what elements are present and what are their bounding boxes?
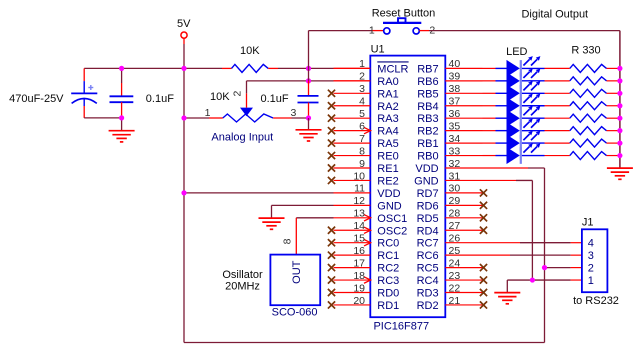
pin 11 VDD (left stub): [334, 192, 371, 194]
svg-text:U1: U1: [371, 44, 385, 56]
label pin number 2: [359, 71, 365, 83]
svg-text:470uF-25V: 470uF-25V: [9, 93, 64, 105]
svg-text:5V: 5V: [177, 18, 191, 30]
wire resistor R8 to bus: [607, 155, 620, 157]
label pin number 24: [449, 257, 461, 269]
label pin number 19: [353, 282, 365, 294]
wire J1 pin1 to ground: [507, 280, 582, 293]
svg-text:13: 13: [353, 208, 365, 220]
svg-text:OSC2: OSC2: [377, 225, 407, 237]
label pin number 4: [359, 96, 365, 108]
pin 6 RA4 (left stub): [328, 127, 371, 134]
svg-text:40: 40: [449, 58, 461, 70]
pin 1 MCLR (left stub): [334, 67, 371, 69]
label pin number 30: [449, 183, 461, 195]
svg-text:RC0: RC0: [377, 238, 399, 250]
pin 34 RB1 (right stub): [445, 142, 482, 144]
label R 330: [571, 45, 600, 57]
svg-text:25: 25: [449, 245, 461, 257]
label pin name RC2: [377, 263, 399, 275]
label pin name RE0: [377, 151, 398, 163]
svg-text:18: 18: [353, 270, 365, 282]
label pin number 29: [449, 195, 461, 207]
label pin number 37: [449, 96, 461, 108]
label pin name RC5: [417, 263, 439, 275]
wire resistor R5 to bus: [607, 117, 620, 119]
svg-text:RC1: RC1: [377, 250, 399, 262]
label pin number 28: [449, 208, 461, 220]
label pin name OSC1: [377, 213, 407, 225]
pin 2 RA0 (left stub): [334, 80, 371, 82]
wire resistor R1 to bus: [607, 67, 620, 69]
label C2 value: [146, 93, 174, 105]
junction pot pin3/C3/ground: [306, 115, 311, 120]
svg-text:OSC1: OSC1: [377, 213, 407, 225]
label pin number 18: [353, 270, 365, 282]
label J1 pin 3: [588, 250, 594, 262]
svg-text:RB1: RB1: [417, 138, 438, 150]
pin 10 RE2 (left stub): [328, 177, 370, 184]
svg-text:Reset Button: Reset Button: [372, 8, 436, 20]
svg-text:RD6: RD6: [417, 200, 439, 212]
label pin name RB0: [417, 151, 438, 163]
label pin name RD6: [417, 200, 439, 212]
label pin name RD3: [417, 288, 439, 300]
label pin number 39: [449, 71, 461, 83]
svg-text:5: 5: [359, 108, 365, 120]
label pin name RA4: [377, 126, 398, 138]
svg-text:RB6: RB6: [417, 76, 438, 88]
capacitor C3 0.1uF: [298, 81, 319, 118]
pin 18 RC3 (left stub): [328, 276, 371, 283]
svg-text:RB7: RB7: [417, 63, 438, 75]
svg-text:RA5: RA5: [377, 138, 398, 150]
svg-text:RE0: RE0: [377, 151, 398, 163]
pin 38 RB5 (right stub): [445, 92, 482, 94]
svg-text:RC5: RC5: [417, 263, 439, 275]
label pin name RA3: [377, 113, 398, 125]
ground (LED bus): [607, 168, 633, 179]
svg-text:RC3: RC3: [377, 275, 399, 287]
wire LED D6 to resistor: [545, 130, 570, 132]
oscillator X1 SCO-060 body: [270, 255, 320, 306]
junction bus row 7: [617, 141, 622, 146]
svg-text:10K: 10K: [240, 45, 260, 57]
pin 9 RE1 (left stub): [328, 164, 370, 171]
pin 28 RD5 (right stub): [445, 214, 487, 221]
pushbutton SW1 Reset Button: [383, 18, 421, 34]
label button pin 1: [369, 24, 375, 36]
label U1 refdes: [371, 44, 385, 56]
label pin name RA0: [377, 76, 398, 88]
pin 36 RB3 (right stub): [445, 117, 482, 119]
label C3 value: [261, 93, 289, 105]
wire GND pin12: [272, 205, 334, 218]
junction pot pin1/5V rail: [181, 115, 186, 120]
svg-text:26: 26: [449, 233, 461, 245]
svg-text:34: 34: [449, 133, 461, 145]
wire LED D7 to resistor: [545, 142, 570, 144]
resistor R7 330: [570, 139, 607, 147]
label to RS232: [573, 295, 619, 307]
label pin number 23: [449, 270, 461, 282]
wire LED D5 to resistor: [545, 117, 570, 119]
svg-text:1: 1: [369, 24, 375, 36]
label pin name RA1: [377, 88, 398, 100]
label OUT (rotated): [291, 260, 303, 284]
label LED: [506, 46, 527, 58]
junction 5V rail/top rail: [181, 66, 186, 71]
svg-text:RD2: RD2: [417, 300, 439, 312]
wire RB0 to LED D8: [483, 155, 496, 157]
svg-text:Digital Output: Digital Output: [521, 9, 588, 21]
svg-text:10: 10: [353, 170, 365, 182]
svg-text:SCO-060: SCO-060: [272, 307, 318, 319]
label pin number 20: [353, 295, 365, 307]
label pin name OSC2: [377, 225, 407, 237]
label pin number 33: [449, 145, 461, 157]
svg-text:21: 21: [449, 295, 461, 307]
label pin number 40: [449, 58, 461, 70]
wire 5V vertical rail: [183, 44, 185, 343]
svg-text:8: 8: [281, 238, 293, 244]
wire LED D2 to resistor: [545, 80, 570, 82]
svg-text:RB5: RB5: [417, 88, 438, 100]
ground (J1/RS232): [494, 293, 520, 304]
svg-text:30: 30: [449, 183, 461, 195]
label pin name RA5: [377, 138, 398, 150]
svg-text:10K: 10K: [210, 91, 230, 103]
label pin name RB7: [417, 63, 438, 75]
label button pin 2: [429, 24, 435, 36]
svg-text:33: 33: [449, 145, 461, 157]
label pin number 1: [359, 58, 365, 70]
label pin name MCLR: [377, 62, 408, 76]
label pin name RC1: [377, 250, 399, 262]
pin 13 OSC1 (left stub): [334, 215, 371, 221]
LED D6: [496, 118, 545, 139]
LED D1: [496, 56, 545, 77]
LED D5: [496, 106, 545, 127]
label Analog Input: [211, 132, 273, 144]
label pin name RB1: [417, 138, 438, 150]
svg-text:24: 24: [449, 257, 461, 269]
LED D4: [496, 93, 545, 114]
svg-text:to RS232: to RS232: [573, 295, 619, 307]
pin 35 RB2 (right stub): [445, 130, 482, 132]
label pin number 22: [449, 282, 461, 294]
svg-text:RA0: RA0: [377, 76, 398, 88]
junction J1 pin1/GND wire: [530, 277, 535, 282]
wire LED D8 to resistor: [545, 155, 570, 157]
pin 33 RB0 (right stub): [445, 155, 482, 157]
ground (filter caps): [109, 118, 135, 142]
svg-text:GND: GND: [414, 175, 439, 187]
label U1 part PIC16F877: [373, 321, 429, 333]
wire VDD pin32 down to bottom rail: [483, 168, 545, 343]
label pin number 3: [359, 83, 365, 95]
svg-text:RB0: RB0: [417, 151, 438, 163]
svg-text:RB2: RB2: [417, 126, 438, 138]
label pin name RB2: [417, 126, 438, 138]
resistor R1 330: [570, 64, 607, 72]
pin 25 RC6 (right stub): [445, 254, 482, 256]
junction bus row 2: [617, 78, 622, 83]
svg-text:RA2: RA2: [377, 101, 398, 113]
label pin number 13: [353, 208, 365, 220]
svg-text:RC6: RC6: [417, 250, 439, 262]
svg-text:RC4: RC4: [417, 275, 439, 287]
wire LED ground bus: [619, 31, 621, 169]
svg-text:2: 2: [588, 263, 594, 275]
pin 3 RA1 (left stub): [328, 90, 370, 97]
LED D8: [496, 143, 545, 164]
svg-text:4: 4: [359, 96, 365, 108]
wire reset button right leg to ground bus: [419, 30, 620, 32]
svg-text:RE2: RE2: [377, 175, 398, 187]
wire top-left 5V branch: [84, 67, 222, 69]
pin 26 RC7 (right stub): [445, 242, 482, 244]
label pin number 10: [353, 170, 365, 182]
ground (MCU): [259, 218, 285, 229]
label SCO-060: [272, 307, 318, 319]
label pin name GND: [414, 175, 439, 187]
MCU U1 PIC16F877 body: [370, 56, 445, 318]
svg-text:2: 2: [359, 71, 365, 83]
label pin name RD2: [417, 300, 439, 312]
label pin number 36: [449, 108, 461, 120]
svg-text:31: 31: [449, 170, 461, 182]
label pin number 14: [353, 220, 365, 232]
pin 7 RA5 (left stub): [328, 140, 370, 147]
svg-text:Analog Input: Analog Input: [211, 132, 273, 144]
svg-text:RB3: RB3: [417, 113, 438, 125]
svg-text:RD1: RD1: [377, 300, 399, 312]
wire RB1 to LED D7: [483, 142, 496, 144]
svg-text:20MHz: 20MHz: [225, 280, 260, 292]
svg-text:PIC16F877: PIC16F877: [373, 321, 429, 333]
label pin name RC7: [417, 238, 439, 250]
junction C2 bottom/ground: [119, 115, 124, 120]
label pin number 34: [449, 133, 461, 145]
svg-text:37: 37: [449, 96, 461, 108]
connector J1 body: [582, 229, 608, 292]
svg-text:14: 14: [353, 220, 365, 232]
svg-text:OUT: OUT: [291, 260, 303, 284]
wire resistor R7 to bus: [607, 142, 620, 144]
svg-text:RB4: RB4: [417, 101, 438, 113]
pin 14 OSC2 (left stub): [328, 227, 371, 234]
svg-text:VDD: VDD: [415, 163, 438, 175]
resistor R1 10K: [222, 64, 278, 72]
label pin number 15: [353, 233, 365, 245]
svg-text:1: 1: [359, 58, 365, 70]
label pin name RB3: [417, 113, 438, 125]
resistor R4 330: [570, 102, 607, 110]
svg-text:RD0: RD0: [377, 288, 399, 300]
LED D2: [496, 69, 545, 90]
svg-text:8: 8: [359, 145, 365, 157]
label pot pin 1: [205, 107, 211, 119]
pin 12 GND (left stub): [334, 204, 371, 206]
svg-text:12: 12: [353, 195, 365, 207]
wire RB3 to LED D5: [483, 117, 496, 119]
potentiometer RV1 10K: [209, 93, 292, 122]
svg-text:16: 16: [353, 245, 365, 257]
svg-text:RD3: RD3: [417, 288, 439, 300]
label pin number 12: [353, 195, 365, 207]
svg-text:27: 27: [449, 220, 461, 232]
wire RB2 to LED D6: [483, 130, 496, 132]
svg-text:RE1: RE1: [377, 163, 398, 175]
wire RB6 to LED D2: [483, 80, 496, 82]
power terminal 5V: [177, 18, 191, 44]
label pin name RA2: [377, 101, 398, 113]
pin 23 RC4 (right stub): [445, 276, 487, 283]
svg-text:3: 3: [290, 107, 296, 119]
label pin name RD1: [377, 300, 399, 312]
svg-text:22: 22: [449, 282, 461, 294]
label J1 pin 4: [588, 238, 594, 250]
pin 40 RB7 (right stub): [445, 67, 482, 69]
wire resistor R2 to bus: [607, 80, 620, 82]
svg-text:32: 32: [449, 158, 461, 170]
wire RB7 to LED D1: [483, 67, 496, 69]
label Reset Button: [372, 8, 436, 20]
label Digital Output: [521, 9, 588, 21]
svg-text:RD5: RD5: [417, 213, 439, 225]
junction bus row 8: [617, 153, 622, 158]
wire resistor R6 to bus: [607, 130, 620, 132]
junction bus row 4: [617, 103, 622, 108]
svg-text:38: 38: [449, 83, 461, 95]
junction RA0/C3: [306, 78, 311, 83]
pin 32 VDD (right stub): [445, 167, 482, 169]
label pin name RD4: [417, 225, 439, 237]
svg-text:RA4: RA4: [377, 126, 398, 138]
svg-text:6: 6: [359, 120, 365, 132]
svg-text:GND: GND: [377, 200, 402, 212]
junction bus row 3: [617, 91, 622, 96]
svg-text:39: 39: [449, 71, 461, 83]
label pin name RC3: [377, 275, 399, 287]
label J1 pin 2: [588, 263, 594, 275]
pin 8 RE0 (left stub): [328, 152, 370, 159]
pin 29 RD6 (right stub): [445, 202, 487, 209]
svg-text:19: 19: [353, 282, 365, 294]
label pin number 26: [449, 233, 461, 245]
wire J1 pin2 to VDD wire: [545, 267, 582, 269]
svg-text:3: 3: [588, 250, 594, 262]
pin 5 RA3 (left stub): [328, 115, 370, 122]
label pin number 11: [354, 183, 365, 195]
svg-text:RA1: RA1: [377, 88, 398, 100]
label pin number 7: [359, 133, 365, 145]
junction VDD/rail: [181, 190, 186, 195]
wire VDD pin11 from rail: [184, 192, 334, 194]
label pin name RB6: [417, 76, 438, 88]
pin 39 RB6 (right stub): [445, 80, 482, 82]
label pin name RB5: [417, 88, 438, 100]
svg-text:RD4: RD4: [417, 225, 439, 237]
label pin name RB4: [417, 101, 438, 113]
svg-text:3: 3: [359, 83, 365, 95]
wire reset button left leg: [309, 31, 385, 69]
label pin name RE1: [377, 163, 398, 175]
label RV1 value 10K: [210, 91, 230, 103]
label pin number 6: [359, 120, 365, 132]
wire resistor R4 to bus: [607, 105, 620, 107]
junction MCLR/reset button: [306, 66, 311, 71]
label pin number 8: [359, 145, 365, 157]
label pin number 16: [353, 245, 365, 257]
wire pot pin1 from rail: [184, 117, 209, 119]
label pin name RD7: [417, 188, 439, 200]
pin 24 RC5 (right stub): [445, 264, 487, 271]
wire resistor R3 to bus: [607, 92, 620, 94]
resistor R2 330: [570, 77, 607, 85]
wire capacitor bottom: [84, 117, 121, 119]
wire OSC1 pin13: [296, 218, 333, 255]
junction bus row 6: [617, 128, 622, 133]
label pin number 35: [449, 120, 461, 132]
label C1 value: [9, 93, 64, 105]
pin 4 RA2 (left stub): [328, 102, 370, 109]
junction bus row 1: [617, 66, 622, 71]
wire RC6 pin25 to J1 pin3: [483, 254, 582, 256]
label pin number 21: [449, 295, 461, 307]
label J1 refdes: [582, 217, 594, 229]
label pin number 25: [449, 245, 461, 257]
pin 17 RC2 (left stub): [328, 264, 370, 271]
wire RB4 to LED D4: [483, 105, 496, 107]
svg-text:0.1uF: 0.1uF: [261, 93, 289, 105]
wire vertical MCLR/RA0 link: [308, 68, 310, 80]
pin 21 RD2 (right stub): [445, 301, 487, 308]
svg-text:1: 1: [588, 275, 594, 287]
label pin name VDD: [415, 163, 438, 175]
pin 15 RC0 (left stub): [328, 239, 371, 246]
label pin number 17: [353, 257, 365, 269]
label pin number 38: [449, 83, 461, 95]
junction bus row 5: [617, 116, 622, 121]
svg-text:J1: J1: [582, 217, 594, 229]
pin 16 RC1 (left stub): [328, 252, 370, 259]
svg-text:MCLR: MCLR: [377, 63, 408, 75]
svg-text:36: 36: [449, 108, 461, 120]
svg-text:20: 20: [353, 295, 365, 307]
svg-text:15: 15: [353, 233, 365, 245]
svg-text:RC2: RC2: [377, 263, 399, 275]
wire MCLR net: [278, 67, 370, 69]
svg-text:28: 28: [449, 208, 461, 220]
label pin name RD5: [417, 213, 439, 225]
capacitor C2 0.1uF: [110, 68, 134, 118]
svg-text:17: 17: [353, 257, 365, 269]
svg-text:23: 23: [449, 270, 461, 282]
svg-text:7: 7: [359, 133, 365, 145]
LED D3: [496, 81, 545, 102]
label pin name GND: [377, 200, 402, 212]
resistor R8 330: [570, 152, 607, 160]
label pin name RC6: [417, 250, 439, 262]
pin 37 RB4 (right stub): [445, 105, 482, 107]
label pin number 5: [359, 108, 365, 120]
wire LED D1 to resistor: [545, 67, 570, 69]
wire GND pin31 down: [483, 180, 533, 280]
svg-text:29: 29: [449, 195, 461, 207]
svg-text:1: 1: [205, 107, 211, 119]
